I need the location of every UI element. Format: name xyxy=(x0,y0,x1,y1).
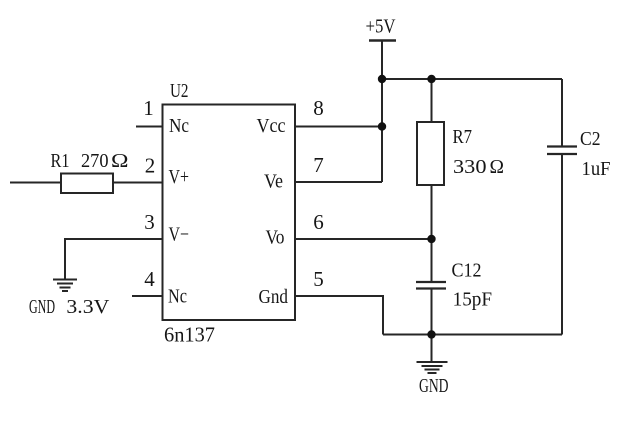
svg-text:6: 6 xyxy=(313,210,324,234)
label GND 3.3V xyxy=(29,296,110,318)
power +5V symbol xyxy=(369,39,396,41)
svg-text:5: 5 xyxy=(313,267,324,291)
wire pin 7 to vertical xyxy=(295,181,382,183)
svg-text:3.3V: 3.3V xyxy=(66,296,110,318)
wire C12 bottom to rail xyxy=(431,289,433,335)
wire top rail xyxy=(382,78,562,80)
svg-text:1: 1 xyxy=(143,96,154,120)
pin label Nc 4 xyxy=(168,286,187,308)
pin 4 number xyxy=(144,267,155,291)
ground GND right xyxy=(417,335,448,374)
pin 8 number xyxy=(313,96,324,120)
ground left xyxy=(53,280,77,292)
svg-text:3: 3 xyxy=(144,210,155,234)
svg-text:Nc: Nc xyxy=(169,115,189,137)
capacitor C12 xyxy=(416,282,446,289)
pin 1 number xyxy=(143,96,154,120)
wire pin 8 to +5V node xyxy=(295,126,382,128)
svg-text:Vo: Vo xyxy=(266,227,285,249)
svg-text:4: 4 xyxy=(144,267,155,291)
wire rail to R7 top xyxy=(431,79,433,122)
pin 3 number xyxy=(144,210,155,234)
node junction pin 6 xyxy=(427,235,435,243)
node junction top rail R7 xyxy=(427,75,435,83)
wire pin 6 to node xyxy=(295,238,432,240)
wire C2 top xyxy=(561,79,563,147)
svg-text:270: 270 xyxy=(81,150,109,172)
wire pin 1 stub xyxy=(136,126,163,128)
svg-text:R1: R1 xyxy=(51,150,70,172)
svg-text:7: 7 xyxy=(313,153,324,177)
pin 7 number xyxy=(313,153,324,177)
label U2 xyxy=(170,80,189,102)
node junction bottom rail xyxy=(427,330,435,338)
wire C2 bottom xyxy=(561,154,563,335)
svg-text:Ve: Ve xyxy=(264,171,283,193)
svg-text:R7: R7 xyxy=(453,126,473,148)
resistor R7 xyxy=(417,122,444,185)
svg-text:V−: V− xyxy=(169,224,190,246)
label C12 xyxy=(452,260,482,282)
svg-text:Vcc: Vcc xyxy=(257,115,286,137)
pin label Vo xyxy=(266,227,285,249)
value 330 ohm xyxy=(453,156,504,178)
value 1uF xyxy=(582,158,611,180)
pin label V- xyxy=(169,224,190,246)
svg-text:C2: C2 xyxy=(580,128,601,150)
pin label V+ xyxy=(169,166,190,188)
label R7 xyxy=(453,126,473,148)
wire pin 4 stub xyxy=(132,295,163,297)
svg-text:Gnd: Gnd xyxy=(259,286,289,308)
pin 6 number xyxy=(313,210,324,234)
svg-text:+5V: +5V xyxy=(366,16,396,38)
svg-text:6n137: 6n137 xyxy=(164,323,215,347)
svg-text:330: 330 xyxy=(453,156,487,178)
svg-text:Ω: Ω xyxy=(490,156,505,178)
svg-text:GND: GND xyxy=(29,296,55,318)
svg-text:Ω: Ω xyxy=(111,150,129,172)
capacitor C2 xyxy=(547,147,577,155)
svg-text:15pF: 15pF xyxy=(453,289,493,311)
pin label Nc 1 xyxy=(169,115,189,137)
pin label Gnd xyxy=(259,286,289,308)
node junction top rail left xyxy=(378,75,386,83)
wire bottom rail xyxy=(383,334,562,336)
svg-text:V+: V+ xyxy=(169,166,190,188)
pin label Ve xyxy=(264,171,283,193)
svg-text:C12: C12 xyxy=(452,260,482,282)
label R1 xyxy=(51,150,70,172)
svg-text:Nc: Nc xyxy=(168,286,187,308)
svg-text:GND: GND xyxy=(419,375,449,397)
node junction pin 8 xyxy=(378,122,386,130)
resistor R1 xyxy=(61,174,113,194)
wire pin 5 elbow xyxy=(295,296,383,335)
wire R7 bottom to C12 top xyxy=(431,185,433,282)
label C2 xyxy=(580,128,601,150)
label 6n137 xyxy=(164,323,215,347)
svg-text:1uF: 1uF xyxy=(582,158,611,180)
label +5V xyxy=(366,16,396,38)
wire R1 to pin 2 xyxy=(113,182,163,184)
svg-text:U2: U2 xyxy=(170,80,189,102)
value 270 ohm xyxy=(81,150,129,172)
op-amp U2 box 6n137 xyxy=(163,105,296,321)
pin 2 number xyxy=(145,154,156,178)
wire +5V vertical xyxy=(381,41,383,183)
svg-text:2: 2 xyxy=(145,154,156,178)
svg-text:8: 8 xyxy=(313,96,324,120)
wire input to R1 xyxy=(10,182,61,184)
wire pin 3 to ground xyxy=(65,239,163,279)
pin 5 number xyxy=(313,267,324,291)
pin label Vcc xyxy=(257,115,286,137)
label GND bottom xyxy=(419,375,449,397)
value 15pF xyxy=(453,289,493,311)
